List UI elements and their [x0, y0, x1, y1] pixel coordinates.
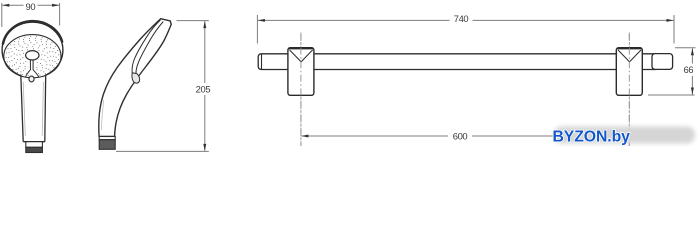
svg-text:BYZON.by: BYZON.by [553, 129, 631, 146]
svg-text:90: 90 [26, 1, 36, 12]
svg-text:600: 600 [453, 130, 468, 141]
svg-text:205: 205 [196, 84, 211, 95]
svg-text:66: 66 [684, 65, 694, 75]
svg-text:740: 740 [454, 13, 469, 24]
